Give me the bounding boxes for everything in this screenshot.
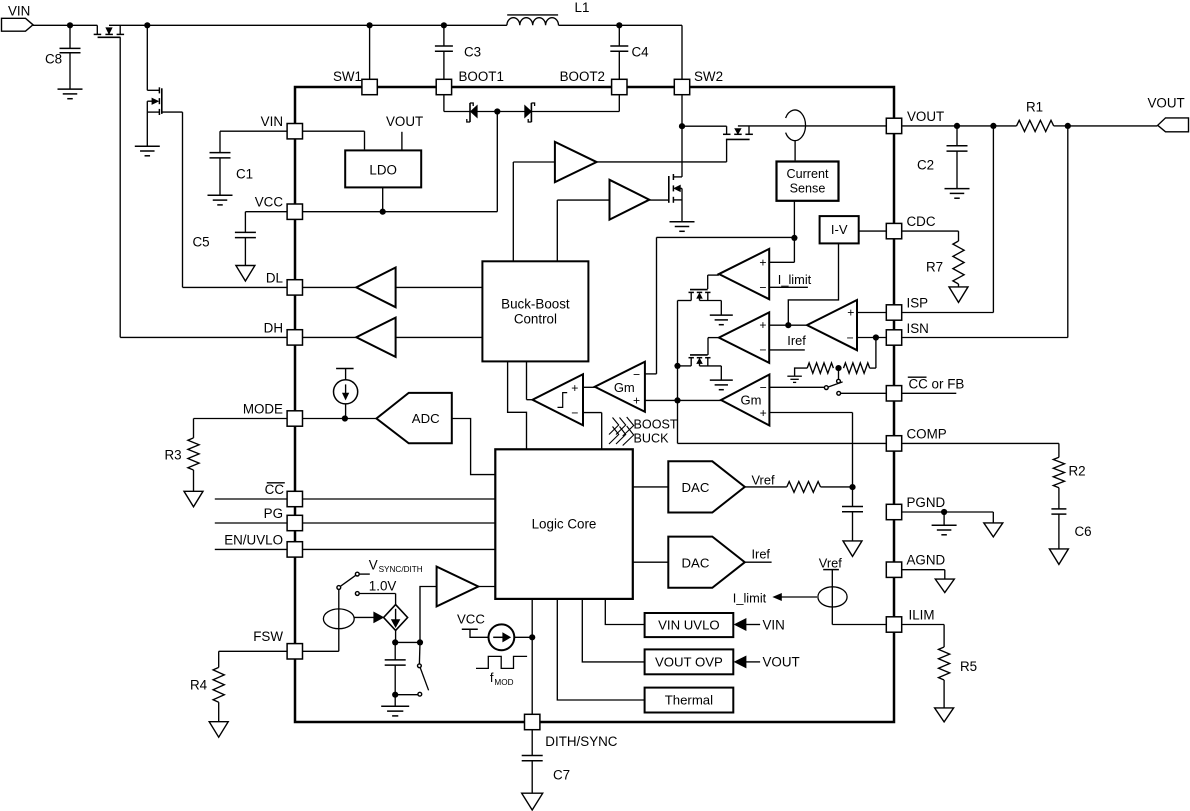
wire AGND pin stub	[902, 570, 945, 579]
wire U4 output to Q3 gate	[649, 199, 668, 201]
wire Logic Core to VOUT OVP	[582, 599, 644, 662]
wire DAC Iref output stub (Iref)	[745, 547, 772, 563]
capacitor C5	[193, 232, 256, 265]
svg-text:Buck-Boost: Buck-Boost	[501, 297, 570, 312]
block Logic Core	[495, 449, 633, 599]
wire VOUT output line	[902, 125, 1016, 127]
block VOUT OVP	[645, 649, 734, 674]
svg-text:CDC: CDC	[907, 214, 936, 229]
ground divider earth ground	[787, 368, 807, 382]
wire diode junction down to VCC line	[496, 112, 498, 212]
wire source to ILIM pin	[832, 624, 886, 626]
wire sense junction to I_limit comparator	[769, 238, 794, 262]
capacitor soft-start	[842, 487, 863, 541]
svg-text:VCC: VCC	[457, 612, 485, 627]
ground C6 triangle	[1049, 549, 1068, 565]
wire ISP input	[857, 312, 886, 314]
wire COMP net to COMP pin	[678, 400, 886, 443]
svg-text:DAC: DAC	[682, 555, 710, 570]
wire Logic Core to DAC Iref	[633, 561, 669, 563]
pin BOOT1	[436, 69, 504, 95]
wire ISN riser	[902, 126, 1068, 338]
node rail junction at Q2 drain	[144, 22, 150, 28]
svg-text:+: +	[759, 256, 766, 270]
svg-text:C8: C8	[45, 52, 62, 67]
transistor Q6 COMP clamp FET (lower)	[678, 355, 722, 380]
svg-text:+: +	[759, 318, 766, 332]
transistor Q2 NMOS (driven by DL)	[147, 25, 162, 146]
svg-text:R5: R5	[960, 659, 977, 674]
node DITH riser junction	[529, 634, 535, 640]
resistor R3	[165, 438, 200, 491]
wire PGND pin net	[902, 511, 993, 513]
svg-text:−: −	[760, 381, 767, 395]
svg-text:−: −	[846, 331, 853, 345]
svg-text:EN/UVLO: EN/UVLO	[224, 532, 283, 547]
switch FB select	[824, 368, 842, 395]
wire MODE pin left to R3	[194, 419, 287, 438]
svg-text:R1: R1	[1026, 100, 1043, 115]
wire DH driver to Buck-Boost Control	[396, 336, 483, 338]
svg-text:I_limit: I_limit	[778, 272, 812, 287]
resistor divider upper	[807, 363, 833, 373]
svg-text:C6: C6	[1075, 524, 1092, 539]
wire I-V to CDC pin	[859, 230, 886, 232]
svg-text:1.0V: 1.0V	[369, 579, 397, 594]
svg-text:BUCK: BUCK	[634, 431, 670, 445]
wire VIN rail segment 2 (after Q1 source)	[109, 24, 507, 26]
pin VIN	[261, 114, 303, 139]
pin DITH/SYNC	[525, 714, 618, 749]
svg-text:L1: L1	[575, 0, 590, 15]
buffer DH driver	[356, 318, 395, 357]
svg-text:+: +	[571, 381, 578, 395]
wire Gm2 minus to switch	[769, 386, 824, 388]
wire Iref output to Q6 gate	[708, 338, 719, 355]
pin CC (left, overlined)	[265, 482, 303, 507]
svg-text:C2: C2	[917, 158, 934, 173]
svg-text:Current: Current	[787, 167, 829, 181]
op-amp Gm1 error amp	[595, 362, 645, 412]
pin DL	[266, 270, 303, 295]
wire Buck-Boost Control to Logic Core	[508, 361, 527, 449]
svg-text:VIN: VIN	[763, 617, 785, 632]
svg-text:Vref: Vref	[752, 473, 775, 488]
ground R5 triangle	[935, 708, 954, 722]
wire PWM comparator output to Buck-Boost Control	[527, 361, 533, 399]
node VCC/LDO junction	[380, 209, 386, 215]
capacitor dither	[385, 642, 406, 694]
wire Gm2 plus to soft-start node	[769, 413, 852, 488]
wire Q1 gate to DH	[119, 37, 121, 337]
pin ISP	[886, 296, 928, 321]
wire Gm1 output to PWM comparator	[583, 386, 595, 388]
wire ISP riser	[902, 126, 993, 313]
wire clamp node vertical	[677, 301, 679, 401]
pin DH	[264, 320, 303, 345]
svg-text:ADC: ADC	[412, 411, 440, 426]
wire ISN input	[857, 337, 886, 339]
ground Q5 earth ground	[710, 315, 733, 325]
wire riser to buffer	[420, 587, 437, 643]
resistor soft-start	[787, 482, 853, 493]
node PGND junction	[941, 509, 947, 515]
switch SYNC/DITH select	[337, 572, 359, 595]
resistor R4	[190, 667, 224, 721]
svg-text:+: +	[847, 305, 854, 319]
svg-text:Gm: Gm	[614, 380, 635, 395]
svg-text:AGND: AGND	[907, 553, 946, 568]
ground R3 triangle	[184, 491, 203, 507]
ground PGND earth ground	[932, 512, 957, 535]
wire Gm1 plus input to COMP node	[645, 399, 678, 401]
connector VIN input tag	[2, 4, 34, 32]
wire scaler to dither cap	[395, 630, 397, 642]
node rail junction C4	[616, 22, 622, 28]
svg-text:CC or FB: CC or FB	[909, 377, 965, 392]
svg-text:PGND: PGND	[907, 495, 946, 510]
svg-text:−: −	[759, 343, 766, 357]
svg-text:Iref: Iref	[752, 547, 771, 562]
wire DL pin to driver	[303, 286, 356, 288]
wire FSW pin left to R4	[219, 651, 287, 667]
transistor Q1 input disconnect PMOS	[94, 25, 124, 37]
svg-text:VIN UVLO: VIN UVLO	[658, 618, 720, 633]
svg-text:BOOT2: BOOT2	[560, 69, 605, 84]
svg-text:VIN: VIN	[8, 4, 30, 19]
svg-text:+: +	[633, 394, 640, 408]
svg-text:−: −	[633, 368, 640, 382]
current source I_limit set	[818, 587, 847, 607]
ground C8 earth ground	[58, 89, 83, 99]
wire Q4 to current sense probe	[738, 125, 886, 127]
wire SW2 drop from rail	[681, 25, 683, 79]
diode D1 (to BOOT1)	[467, 103, 497, 122]
pin CDC	[886, 214, 936, 239]
svg-text:R2: R2	[1069, 464, 1086, 479]
wire LDO output to VCC line	[382, 187, 384, 211]
capacitor C6	[1051, 488, 1091, 549]
current source fMOD	[489, 624, 515, 650]
wire DH pin to driver	[120, 336, 356, 338]
wire Logic Core to DAC Vref	[633, 486, 669, 488]
pin VCC	[255, 195, 303, 220]
wire output line to Q4	[682, 125, 727, 127]
svg-text:LDO: LDO	[369, 162, 397, 177]
wire LDO VOUT supply stub	[386, 114, 423, 150]
wire fMOD source to DITH riser	[514, 636, 532, 638]
op-amp current sense amp (ISP/ISN)	[807, 300, 857, 350]
ramp icon BOOST	[609, 417, 678, 436]
node ISN tap junction	[1065, 123, 1071, 129]
transistor Q3 SW2 low-side NMOS	[669, 126, 682, 221]
svg-text:VOUT: VOUT	[907, 109, 944, 124]
ground PGND triangle	[984, 512, 1003, 537]
node C2 junction	[954, 123, 960, 129]
wire probe to Current Sense block	[794, 140, 796, 160]
svg-text:VCC: VCC	[255, 195, 284, 210]
svg-text:f: f	[490, 670, 494, 685]
svg-text:SW1: SW1	[333, 69, 362, 84]
wire Logic Core to VIN UVLO	[605, 599, 644, 625]
wire probe to VOUT pin	[0, 0, 1, 1]
node divider junction	[835, 365, 841, 371]
pin SW1	[333, 69, 377, 95]
wire DL driver to Buck-Boost Control	[396, 286, 483, 288]
node soft-start junction	[849, 484, 855, 490]
ground soft-start triangle	[843, 541, 862, 557]
resistor divider lower	[844, 363, 870, 373]
wire BOOT1 to diode D1	[444, 95, 470, 111]
resistor R1	[1017, 100, 1054, 132]
svg-text:DITH/SYNC: DITH/SYNC	[545, 734, 617, 749]
node ISP tap junction	[990, 123, 996, 129]
svg-text:Iref: Iref	[787, 333, 806, 348]
capacitor C8	[45, 25, 81, 89]
svg-text:V: V	[369, 557, 378, 572]
pin AGND	[886, 553, 945, 578]
wire CC-or-FB pin stub	[841, 392, 957, 394]
pin ILIM	[886, 608, 934, 633]
oscillator ellipse	[323, 609, 354, 629]
node COMP net junction	[674, 397, 680, 403]
svg-text:R7: R7	[926, 260, 943, 275]
svg-text:Logic Core: Logic Core	[532, 517, 597, 532]
node SW2 output junction	[679, 123, 685, 129]
node VIN/C8 junction	[67, 22, 73, 28]
pin ISN	[886, 321, 929, 345]
pin BOOT2	[560, 69, 627, 95]
ground R4 triangle	[209, 722, 228, 738]
wire rail L1 to SW2	[559, 24, 683, 26]
block LDO	[345, 150, 421, 187]
wire DAC Vref output	[745, 473, 787, 488]
svg-text:DAC: DAC	[682, 480, 710, 495]
block DAC Vref	[668, 461, 745, 512]
wire Gm2 output to COMP node	[678, 399, 722, 401]
svg-text:R4: R4	[190, 678, 208, 693]
wire I_limit output to clamp FET Q5 gate	[708, 275, 719, 289]
node rail junction SW1	[367, 22, 373, 28]
svg-text:FSW: FSW	[253, 629, 283, 644]
transistor Q4 output disconnect PMOS	[723, 126, 753, 139]
wire Buck-Boost to driver U3 input	[513, 162, 555, 261]
svg-text:C7: C7	[553, 768, 570, 783]
ground C2 earth ground	[945, 189, 970, 199]
node current sense signal junction	[791, 235, 797, 241]
node clamp junction at Q6	[674, 363, 680, 369]
wire COMP pin to R2	[902, 443, 1059, 457]
resistor R2	[1053, 457, 1085, 487]
wire U3 output to Q4 gate	[597, 139, 727, 162]
ground Q6 earth ground	[710, 380, 733, 390]
wire VIN pin to LDO	[303, 131, 365, 149]
node ISN divider junction	[873, 334, 879, 340]
wire FSW pin to oscillator	[303, 629, 339, 651]
ground C1 earth ground	[208, 195, 233, 205]
svg-text:−: −	[571, 406, 578, 420]
capacitor C3	[435, 25, 481, 79]
wire sense junction to Gm1 inverting input	[645, 237, 795, 374]
node MODE junction	[342, 415, 348, 421]
transistor Q5 COMP clamp FET (upper)	[678, 290, 722, 315]
svg-text:COMP: COMP	[907, 426, 947, 441]
capacitor C2	[917, 126, 968, 188]
wire riser to Logic Core	[531, 599, 533, 637]
wire dither node to buffer riser	[395, 641, 420, 643]
wire Iref plus input	[769, 324, 788, 326]
ground R7 triangle	[949, 287, 968, 303]
capacitor C7	[522, 730, 570, 793]
wire EN/UVLO to Logic Core	[303, 548, 495, 550]
connector VOUT output tag	[1148, 96, 1189, 132]
inductor L1	[507, 0, 590, 25]
wire VIN input arrow	[735, 617, 785, 632]
svg-text:VIN: VIN	[261, 114, 283, 129]
wire PWM comparator minus to Logic Core	[583, 413, 602, 450]
pin FSW	[253, 629, 302, 659]
switch dither bypass	[395, 642, 428, 696]
resistor R7	[926, 241, 964, 287]
svg-text:ISP: ISP	[907, 296, 929, 311]
svg-text:−: −	[759, 280, 766, 294]
pin MODE	[243, 402, 303, 427]
wire oscillator to switch pole	[338, 589, 340, 628]
svg-text:C1: C1	[236, 167, 253, 182]
svg-text:C4: C4	[632, 45, 650, 60]
wire VSYNC/DITH stub	[359, 557, 423, 574]
wire Q2 gate to DL	[162, 112, 287, 287]
wire VIN rail segment 1	[33, 24, 97, 26]
block I-V converter	[820, 216, 859, 243]
buffer FSW comparator	[437, 567, 479, 607]
capacitor C4	[610, 25, 649, 79]
IC boundary box	[295, 87, 894, 722]
supply VCC bar	[457, 612, 488, 638]
svg-text:Control: Control	[514, 312, 557, 327]
wire PG stub left	[215, 522, 287, 524]
wire PG to Logic Core	[303, 522, 495, 524]
svg-text:ISN: ISN	[907, 321, 929, 336]
ground AGND triangle	[935, 579, 954, 592]
wire SW2 pin down	[681, 95, 683, 126]
ramp icon BUCK	[609, 426, 669, 446]
block Current Sense	[777, 162, 839, 201]
wire buffer to Logic Core	[478, 586, 495, 588]
ground Q3 source earth ground	[670, 222, 695, 232]
wire VOUT input arrow	[735, 655, 800, 670]
dependent source frequency scaler	[384, 605, 408, 631]
wire VIN pin to C1	[220, 131, 287, 152]
node diode junction to VCC	[494, 108, 500, 114]
svg-text:DH: DH	[264, 320, 283, 335]
svg-text:VOUT: VOUT	[763, 655, 800, 670]
current source MODE pull-up	[334, 369, 358, 419]
svg-text:MODE: MODE	[243, 402, 283, 417]
buffer DL driver	[356, 268, 395, 308]
svg-text:Thermal: Thermal	[665, 693, 713, 708]
op-amp I_limit comparator	[719, 249, 769, 299]
svg-text:Sense: Sense	[790, 182, 826, 196]
resistor R5	[939, 647, 978, 708]
wire ADC output to Logic Core	[452, 419, 496, 475]
svg-text:VOUT: VOUT	[386, 114, 423, 129]
node dither ground node	[392, 692, 398, 698]
wire VCC line	[303, 211, 497, 213]
svg-text:ILIM: ILIM	[909, 608, 935, 623]
node dither node A	[392, 639, 398, 645]
buffer U3 gate driver (SW2 PMOS)	[555, 142, 597, 182]
wire Buck-Boost to driver U4 input	[557, 200, 609, 261]
svg-text:C5: C5	[193, 235, 210, 250]
wire I-V output to Iref node	[788, 243, 838, 325]
svg-text:PG: PG	[264, 506, 283, 521]
wire VCC pin to C5	[245, 212, 286, 233]
wire I_limit inverting stub (I_limit)	[769, 272, 811, 287]
wire sense amp output	[788, 324, 807, 326]
svg-text:BOOT1: BOOT1	[459, 69, 504, 84]
svg-text:I-V: I-V	[831, 222, 848, 237]
wire CC to Logic Core	[303, 498, 495, 500]
wire MODE pin to ADC	[303, 418, 377, 420]
ground C7 triangle	[522, 793, 543, 810]
pin PGND	[886, 495, 945, 520]
wire SW1 drop	[369, 25, 371, 79]
svg-text:I_limit: I_limit	[733, 590, 767, 605]
block VIN UVLO	[645, 613, 734, 637]
comparator PWM with hysteresis	[533, 374, 584, 425]
ground C5 triangle	[236, 266, 255, 282]
svg-text:MOD: MOD	[494, 678, 513, 687]
ground Q2 source earth ground	[135, 146, 160, 156]
svg-text:DL: DL	[266, 270, 283, 285]
wire R1 to VOUT tag	[1054, 125, 1158, 127]
wire ILIM pin to R5	[902, 625, 944, 648]
node rail junction C3	[441, 22, 447, 28]
svg-text:VOUT OVP: VOUT OVP	[655, 654, 723, 669]
wire CDC pin to R7	[902, 231, 958, 241]
capacitor C1	[210, 153, 254, 196]
current sense probe ellipse	[786, 110, 806, 141]
pin VOUT	[886, 109, 944, 134]
block DAC Iref	[668, 537, 745, 588]
wire oscillator output arrow to scaler	[354, 612, 383, 622]
wire EN/UVLO stub left	[215, 548, 287, 550]
svg-text:CC: CC	[265, 482, 285, 497]
svg-text:BOOST: BOOST	[634, 417, 678, 431]
svg-text:Gm: Gm	[741, 392, 762, 407]
svg-text:VOUT: VOUT	[1148, 96, 1185, 111]
node dither node B	[417, 639, 423, 645]
wire Logic Core to Thermal	[557, 599, 644, 700]
block Buck-Boost Control	[482, 261, 588, 361]
pin PG	[264, 506, 303, 531]
supply Vref bar	[819, 555, 842, 624]
pin SW2	[674, 69, 723, 95]
wire divider to ISN	[870, 338, 876, 369]
block Thermal	[645, 688, 734, 713]
svg-text:SYNC/DITH: SYNC/DITH	[379, 565, 423, 574]
op-amp Gm2 error amp	[721, 375, 769, 426]
op-amp Iref amplifier	[719, 312, 769, 363]
pin COMP	[886, 426, 946, 451]
wire CC stub left	[215, 498, 287, 500]
wire Current Sense output down	[793, 201, 795, 238]
svg-text:Vref: Vref	[819, 555, 842, 570]
svg-text:+: +	[760, 406, 767, 420]
waveform fMOD icon	[476, 656, 527, 686]
svg-text:R3: R3	[165, 448, 182, 463]
